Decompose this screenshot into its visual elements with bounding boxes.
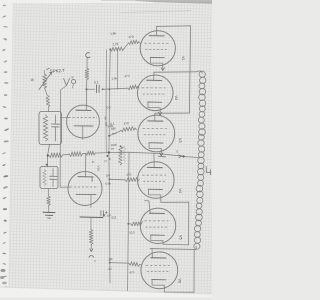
svg-text:V16: V16 — [97, 166, 101, 172]
coupling capacitor C4 0.1 — [87, 80, 100, 92]
row 5 feed: resistor R18 to V5 grid — [103, 213, 142, 235]
svg-text:512: 512 — [111, 215, 117, 219]
svg-text:1.8k: 1.8k — [110, 31, 117, 36]
pentode V5 envelope — [140, 208, 182, 244]
V5 cathode wire — [163, 243, 189, 246]
right cathode vertical — [188, 202, 190, 245]
input bus wire down left — [60, 86, 66, 187]
connector arrow + C (bottom) — [89, 249, 96, 263]
RC decoupling block R4 C3 — [40, 167, 58, 189]
V4 cathode wire to right vertical — [161, 198, 189, 202]
V7 grid lead — [60, 117, 68, 119]
V5 cathode hook — [151, 235, 163, 244]
resistor R2 (series, vertical) — [46, 95, 50, 107]
long bus wire — [109, 49, 110, 283]
pentode V2 envelope — [137, 75, 177, 111]
row 6 feed: resistor R19 to V6 grid — [108, 257, 141, 275]
triode V7 envelope — [67, 105, 100, 138]
V2 cathode — [148, 101, 162, 103]
bottom-left dark spots — [0, 269, 5, 272]
V6 cathode — [152, 279, 166, 281]
V6 grids (dashed) — [146, 264, 170, 266]
V8 cathode lead — [90, 195, 92, 208]
V7 plate — [76, 109, 91, 111]
V1 cathode hook — [151, 58, 163, 67]
triode V8 envelope — [68, 172, 102, 206]
V8 grid (dashed) — [70, 186, 99, 188]
svg-text:0.1: 0.1 — [94, 80, 99, 84]
row 4 feed: resistor R17 to V4 grid — [105, 172, 139, 186]
V4 cathode — [148, 188, 162, 190]
V2 plate lead to transformer top — [154, 72, 197, 81]
B+ rail with dropping resistors R6 R7 R8 — [49, 151, 183, 158]
svg-text:W: W — [122, 145, 125, 149]
input terminal J1 (V ip) — [64, 75, 76, 88]
V2 grids (dashed) — [142, 87, 166, 89]
dark streak top right (photo edge) — [135, 0, 212, 4]
bus wire right (lower) — [128, 152, 129, 290]
short bus wire — [116, 49, 118, 90]
V6 plate lead to transformer bottom wire — [150, 249, 194, 258]
RC decoupling block R3 C2 — [39, 112, 62, 145]
V1 cathode ground arrow — [161, 67, 164, 71]
resistor R11 (vertical, faint) — [123, 148, 126, 164]
wire, resistor R12, to bias connector — [90, 218, 92, 230]
V8 cathode — [76, 193, 96, 195]
wire pot to RC block — [45, 88, 47, 95]
V7 grid (dashed) — [69, 117, 98, 119]
faint ruled line top — [120, 11, 191, 13]
V3 cathode hook — [149, 143, 161, 152]
V1 grids (dashed) — [144, 42, 168, 44]
svg-text:0.1: 0.1 — [107, 105, 112, 109]
V4 cathode hook — [149, 189, 161, 198]
V1 plate — [149, 35, 164, 37]
V5 plate — [150, 212, 165, 214]
row 1 feed: resistors R13 R14 to V1 grid — [109, 31, 140, 51]
transformer secondary mark — [206, 166, 211, 175]
V3 plate lead and wire — [155, 113, 190, 121]
wire tap to transformer — [185, 157, 200, 158]
V6 cathode hook — [152, 280, 164, 289]
potentiometer VR1 — [39, 71, 52, 90]
svg-text:1.4k: 1.4k — [111, 76, 117, 81]
supply connector C (top) — [86, 53, 90, 58]
V1 plate lead and top wire to right rail — [156, 26, 190, 36]
output transformer T1 primary winding — [197, 71, 203, 74]
svg-text:6.8k: 6.8k — [107, 124, 113, 129]
V5 cathode — [151, 234, 165, 236]
resistor R10 (vertical, mid) — [119, 147, 123, 165]
value labels middle — [103, 105, 125, 163]
right rail vertical (V1-V3 plates) — [189, 26, 190, 113]
V3 ground bar — [159, 156, 166, 158]
V2 plate — [147, 79, 162, 81]
V2 cathode ground arrow — [159, 111, 162, 115]
V3 cathode ground arrow — [160, 152, 163, 156]
V8 plate lead from B+ — [85, 153, 87, 176]
paper background — [0, 0, 212, 300]
svg-text:9A: 9A — [104, 117, 108, 121]
wire to resistor R5 — [48, 189, 50, 197]
pentode V1 envelope — [140, 31, 185, 67]
bottom paper edge — [0, 287, 212, 300]
spiral binding torn edge marks — [3, 5, 6, 7]
V8 plate — [78, 176, 93, 178]
svg-text:V3: V3 — [178, 138, 182, 143]
V4 plate — [147, 166, 162, 168]
svg-text:V2: V2 — [174, 96, 178, 101]
V4 plate lead to B+ rail — [153, 153, 155, 167]
svg-text:470: 470 — [126, 172, 132, 176]
svg-text:2.2k: 2.2k — [112, 42, 119, 47]
row 3 feed: resistor R16 to V3 grid — [107, 121, 136, 136]
svg-text:V6: V6 — [177, 279, 181, 284]
V2 cathode hook — [148, 102, 160, 111]
svg-text:470: 470 — [124, 74, 130, 78]
pentode V4 envelope — [138, 162, 182, 199]
pentode V6 envelope — [141, 252, 181, 289]
ground GND1 — [43, 212, 55, 218]
svg-text:5.6k: 5.6k — [105, 181, 111, 186]
wire block1 to block2, junction node B+ takeoff — [48, 145, 50, 167]
row 2 feed: resistor R15 to V2 grid — [103, 74, 140, 90]
V7 cathode lead — [82, 126, 84, 140]
V3 grids (dashed) — [143, 128, 167, 130]
junction dot B+ tap — [182, 155, 184, 157]
svg-text:470: 470 — [124, 121, 130, 125]
bus wire (left pair) — [105, 50, 107, 153]
svg-text:V4: V4 — [178, 189, 182, 194]
svg-text:V1: V1 — [181, 56, 185, 61]
torn left margin of notebook page — [0, 0, 14, 300]
resistor R5 (vertical) — [47, 196, 51, 206]
V8 grid lead — [60, 186, 70, 188]
V7 cathode — [74, 125, 93, 127]
V5 grids (dashed) — [145, 220, 169, 222]
V5 plate lead — [145, 201, 151, 214]
V4 grids (dashed) — [142, 174, 166, 176]
svg-text:1k: 1k — [30, 78, 34, 82]
V6 cathode wire to transformer return — [164, 289, 194, 292]
transformer return vertical — [193, 249, 195, 292]
V1 cathode — [150, 56, 164, 58]
V7 plate lead / load resistor R9 / supply C — [85, 89, 87, 110]
svg-text:510: 510 — [129, 230, 135, 234]
wire to ground — [48, 206, 50, 212]
svg-text:470: 470 — [129, 270, 135, 274]
V3 plate — [148, 120, 163, 122]
top paper edge — [0, 0, 212, 3]
svg-text:SPK2.T: SPK2.T — [50, 68, 65, 74]
svg-text:470: 470 — [128, 35, 134, 40]
V6 plate — [151, 257, 166, 259]
svg-text:V5: V5 — [179, 235, 183, 240]
pentode V3 envelope — [138, 115, 182, 152]
wire — [47, 107, 49, 112]
V3 cathode — [149, 142, 163, 144]
cathode ground bar GND2 with bypass cap C5 — [80, 211, 107, 218]
